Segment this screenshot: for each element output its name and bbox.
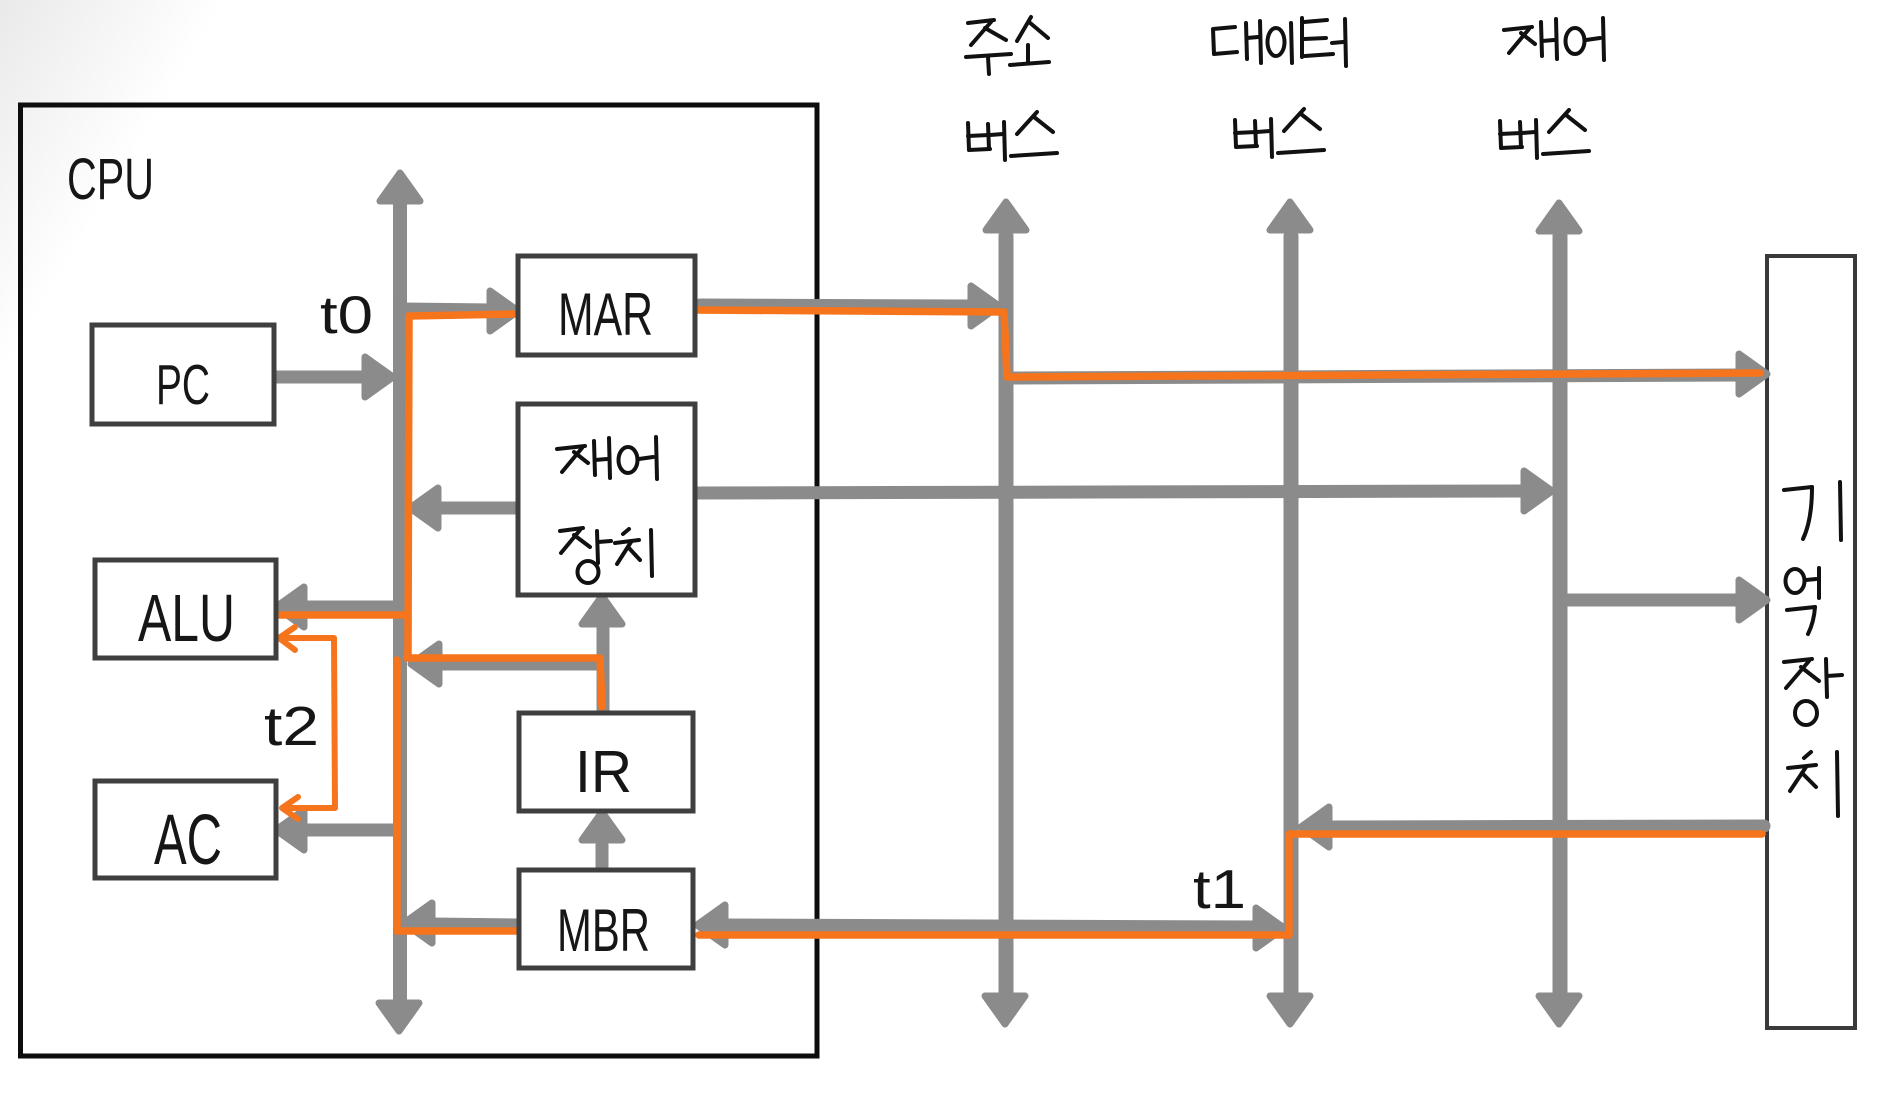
arrowhead memory wire into data bus: [1301, 807, 1329, 847]
memory label chi: [1788, 752, 1838, 816]
arrowhead control bus bottom: [1539, 996, 1579, 1024]
wire memory to data bus: [1330, 826, 1764, 827]
PC box: [92, 325, 274, 424]
orange highlight path: [278, 310, 1762, 935]
arrowhead data wire into MBR: [697, 905, 725, 945]
background corner shading: [0, 0, 300, 500]
memory label jang: [1784, 659, 1842, 725]
CPU outer box: [21, 105, 818, 1056]
arrowhead data bus top: [1270, 202, 1310, 230]
wire data bus to MBR: [722, 925, 1256, 927]
svg-text:CPU: CPU: [67, 147, 154, 212]
svg-text:MAR: MAR: [558, 281, 653, 348]
wire control unit to control bus: [695, 491, 1524, 493]
svg-text:MBR: MBR: [557, 897, 650, 964]
MAR box: [518, 256, 695, 355]
wire control bus to memory: [1560, 594, 1742, 607]
svg-text:PC: PC: [156, 353, 210, 417]
orange t0 wire MAR to memory via address bus: [695, 310, 1760, 377]
arrowhead control unit wire into control bus: [1524, 471, 1552, 511]
internal CPU bus: [393, 205, 407, 999]
label beoseu (bus) under deiteo: [1235, 109, 1324, 157]
arrowhead control-unit wire into internal bus: [410, 488, 438, 528]
orange wire bus to MBR left: [397, 927, 521, 935]
svg-text:t1: t1: [1193, 858, 1246, 920]
arrowhead into ALU: [276, 587, 304, 627]
svg-text:IR: IR: [575, 739, 632, 805]
arrowhead address bus top: [986, 202, 1026, 230]
orange vertical on internal bus upper: [408, 316, 409, 656]
arrowheads: [276, 173, 1767, 1031]
wire MBR to IR: [596, 845, 609, 866]
arrowhead data bus bottom: [1270, 996, 1310, 1024]
data bus: [1284, 236, 1299, 994]
AC box: [95, 781, 276, 878]
MBR box: [519, 870, 693, 968]
svg-text:AC: AC: [154, 801, 222, 880]
arrowhead PC wire into internal bus: [365, 357, 393, 397]
wire control unit to internal bus: [437, 502, 516, 515]
label beoseu (bus) under jeeo: [1500, 110, 1589, 158]
wire MAR to address bus: [700, 305, 974, 306]
arrowhead into memory from address line: [1739, 354, 1767, 394]
control bus: [1553, 236, 1568, 994]
memory label eok: [1786, 568, 1820, 634]
orange t1 wire memory to MBR via data bus: [699, 834, 1762, 935]
control unit box: [518, 404, 695, 595]
arrowhead into control unit bottom: [582, 596, 622, 624]
arrowhead into MAR: [490, 291, 518, 331]
label deiteo (data): [1213, 18, 1346, 66]
arrowhead into memory from control line: [1739, 580, 1767, 620]
gray wires: [274, 205, 1764, 999]
arrowhead control bus top: [1539, 203, 1579, 231]
wire internal bus to AC: [304, 824, 394, 837]
IR box: [519, 713, 693, 811]
memory label gi: [1784, 482, 1841, 540]
arrowhead data wire into data bus: [1256, 908, 1284, 948]
hangul labels drawn as strokes: [557, 17, 1842, 816]
arrowhead MBR wire into IR: [582, 812, 622, 840]
orange branch to ALU: [278, 611, 406, 619]
latin labels: [67, 147, 1246, 964]
wire internal bus to MAR: [403, 309, 494, 310]
arrowhead IR branch into internal bus: [411, 644, 439, 684]
label beoseu (bus) under juso: [968, 112, 1057, 160]
wire MBR to internal bus: [431, 924, 519, 925]
orange vertical on internal bus lower: [393, 660, 401, 931]
svg-text:t2: t2: [264, 695, 319, 757]
wire internal bus to ALU: [304, 601, 394, 614]
memory box (gieok jangchi): [1767, 256, 1855, 1028]
wire address bus to memory: [1013, 375, 1742, 378]
control unit box label line1 jeeo: [557, 437, 657, 479]
svg-text:ALU: ALU: [138, 581, 235, 656]
arrowhead internal bus bottom: [379, 1003, 419, 1031]
arrowhead address bus bottom: [985, 996, 1025, 1024]
arrowhead into AC: [276, 810, 304, 850]
address bus: [999, 236, 1014, 994]
orange t2 arrow ALU to AC: [279, 627, 335, 819]
arrowhead MAR wire into address bus: [971, 286, 999, 326]
orange t0 wire bus to MAR: [409, 314, 514, 316]
svg-text:t0: t0: [320, 286, 373, 345]
arrowhead MBR wire into internal bus: [404, 903, 432, 943]
label jeeo (control): [1504, 18, 1604, 60]
register boxes: [92, 256, 695, 968]
label juso (address): [966, 17, 1049, 74]
wire PC to internal bus: [274, 371, 368, 384]
orange branch to IR: [407, 658, 602, 707]
wire IR up to control unit: [597, 629, 610, 710]
arrowhead internal bus top: [380, 173, 420, 201]
wire IR branch to internal bus: [437, 658, 603, 671]
ALU box: [95, 560, 276, 658]
control unit box label line2 jangchi: [560, 528, 652, 583]
